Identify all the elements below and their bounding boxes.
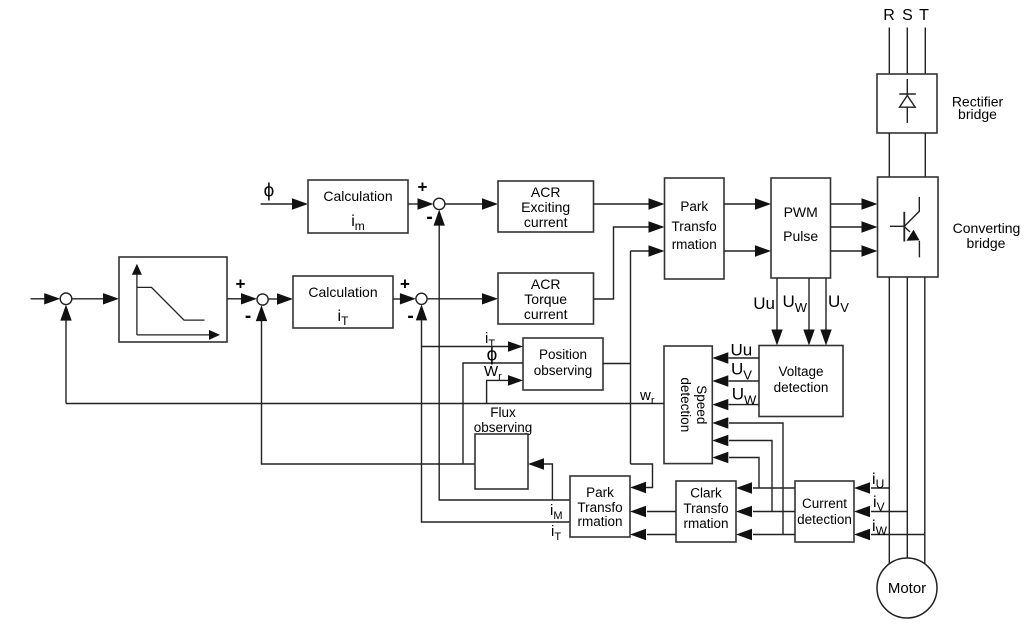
label iT at lower Park — [551, 523, 561, 543]
wire current tap iW to speed detection — [712, 417, 783, 534]
wire current tap iV to speed detection — [712, 435, 772, 512]
svg-text:rmation: rmation — [672, 237, 717, 252]
label iT at position observing — [485, 330, 495, 350]
svg-text:+: + — [400, 275, 410, 294]
wire Park to PWM row2 — [724, 245, 771, 256]
ramp limiter y-axis — [132, 264, 142, 335]
wire S1 to ramp limiter — [72, 293, 119, 304]
summing junction S3 (torque) — [416, 293, 427, 304]
svg-text:Converting: Converting — [953, 220, 1021, 236]
svg-text:-: - — [407, 306, 413, 327]
svg-text:Calculation: Calculation — [308, 284, 377, 300]
wire PWM to converting bridge row3 — [830, 245, 877, 256]
block Park Transformation U1 — [665, 178, 725, 279]
block Park Transformation U2 — [570, 476, 630, 537]
block Calculation iT — [293, 276, 393, 328]
wire iM from lower Park to S4 — [434, 210, 571, 500]
block converting bridge — [878, 177, 939, 277]
svg-text:Transfo: Transfo — [672, 219, 717, 234]
svg-text:Transfo: Transfo — [683, 501, 728, 516]
svg-text:rmation: rmation — [577, 514, 622, 529]
wire wr up into summing junction S1 — [60, 305, 71, 404]
wire S3 to ACR Torque current — [427, 293, 498, 304]
block ACR Torque current — [498, 273, 594, 324]
label iV — [873, 494, 885, 514]
svg-text:rmation: rmation — [683, 516, 728, 531]
svg-text:Speed: Speed — [694, 385, 709, 424]
wire Clark to lower Park row3 — [630, 529, 676, 540]
label Converting bridge — [953, 220, 1021, 251]
wire current detection to Clark row2 — [736, 506, 795, 517]
svg-text:Park: Park — [680, 199, 708, 214]
summing junction S4 (exciting) — [434, 198, 445, 209]
svg-text:bridge: bridge — [967, 235, 1006, 251]
label Uw at voltage detection — [732, 385, 757, 408]
svg-text:Park: Park — [586, 485, 614, 500]
wire ramp limiter to summing junction S2 — [227, 293, 257, 304]
wire Clark to lower Park row2 — [630, 506, 676, 517]
block Voltage detection — [759, 346, 843, 417]
wire rectifier to converting bridge left — [888, 133, 890, 177]
wire PWM to voltage detection line Uv — [820, 278, 831, 346]
wire voltage detection to speed detection Uu — [712, 352, 759, 363]
wire converting bridge to motor phase U — [888, 277, 890, 564]
svg-text:current: current — [524, 306, 568, 322]
wire position observing output — [603, 363, 631, 365]
svg-text:Transfo: Transfo — [577, 500, 622, 515]
wire iU tap into current detection — [854, 482, 889, 493]
wire rectifier to converting bridge right — [924, 133, 926, 177]
label Uu at voltage detection — [731, 341, 753, 360]
wire Park to PWM row1 — [724, 198, 771, 209]
svg-text:Uu: Uu — [753, 294, 775, 313]
wire PWM to voltage detection line Uu — [771, 278, 782, 346]
wire S to rectifier — [906, 28, 908, 75]
wire S2 to Calculation iT — [268, 293, 293, 304]
wire phi to upper Park input 3 — [631, 245, 665, 256]
transistor Q1 in converting bridge — [890, 197, 920, 257]
svg-text:bridge: bridge — [958, 106, 997, 122]
label plus at S4 — [418, 178, 428, 197]
svg-text:Clark: Clark — [690, 486, 722, 501]
block Speed detection — [664, 346, 712, 464]
label Rectifier bridge — [952, 94, 1004, 123]
wire PWM to converting bridge row1 — [830, 198, 877, 209]
wire iM branch up to flux observing — [528, 458, 552, 500]
svg-text:-: - — [426, 207, 432, 228]
summing junction S2 (torque ref) — [257, 294, 268, 305]
label iM — [550, 502, 563, 522]
label minus at S3 — [407, 306, 413, 327]
ramp limiter curve — [137, 287, 204, 320]
wire wr branch to position observing Wr input — [487, 375, 523, 403]
wire S4 to ACR Exciting current — [445, 198, 498, 209]
svg-text:T: T — [919, 7, 929, 24]
wire flux tap to position observing phi input — [463, 363, 523, 464]
block Calculation im — [308, 180, 408, 233]
svg-text:ACR: ACR — [531, 276, 561, 292]
svg-text:PWM: PWM — [784, 204, 818, 220]
svg-text:Position: Position — [539, 347, 587, 362]
wire PWM to converting bridge row2 — [830, 221, 877, 232]
label Wr at position observing — [484, 363, 502, 383]
wire current detection to Clark row3 — [736, 529, 795, 540]
svg-text:ACR: ACR — [531, 184, 561, 200]
block ramp limiter — [119, 257, 227, 342]
wire phi input to Calculation im — [261, 198, 308, 209]
wire voltage detection to speed detection Uw — [712, 399, 759, 410]
block PWM Pulse — [771, 178, 831, 278]
svg-text:+: + — [418, 178, 428, 197]
wire iW tap into current detection — [854, 529, 925, 540]
label iW — [872, 518, 888, 538]
label phi at position observing — [487, 345, 498, 366]
label Flux observing — [474, 405, 533, 435]
wire speed reference input — [31, 293, 61, 304]
svg-text:detection: detection — [797, 512, 852, 527]
label plus at S3 — [400, 275, 410, 294]
svg-text:detection: detection — [774, 380, 829, 395]
wire iT from lower Park to S3 — [416, 304, 570, 522]
svg-text:current: current — [524, 214, 568, 230]
block Current detection — [795, 481, 854, 542]
svg-text:Motor: Motor — [888, 580, 926, 597]
svg-text:S: S — [902, 7, 913, 24]
svg-text:+: + — [236, 275, 246, 294]
wire Calculation im to summing junction S4 — [408, 198, 434, 209]
svg-text:R: R — [883, 7, 895, 24]
svg-text:-: - — [245, 306, 251, 327]
svg-text:Current: Current — [802, 496, 847, 511]
label R phase — [883, 7, 895, 24]
wire flux observing output to summing junction S2 — [256, 305, 475, 464]
ramp limiter x-axis — [137, 330, 220, 340]
wire ACR Torque to Park Transformation (elbow up) — [594, 221, 665, 299]
motor M1 — [877, 558, 937, 618]
diode D1 in rectifier — [899, 79, 916, 123]
wire ACR Exciting to Park Transformation — [594, 198, 665, 209]
label plus at S2 — [236, 275, 246, 294]
label minus at S4 — [426, 207, 432, 228]
node phi reference input label — [264, 181, 275, 202]
wire Calculation iT to summing junction S3 — [393, 293, 416, 304]
label wr — [639, 387, 655, 407]
svg-text:observing: observing — [474, 420, 533, 435]
summing junction S1 (speed) — [60, 293, 72, 305]
label minus at S2 — [245, 306, 251, 327]
wire voltage detection to speed detection Uv — [712, 375, 759, 386]
svg-text:Pulse: Pulse — [783, 228, 818, 244]
wire iV tap into current detection — [854, 506, 908, 517]
label T phase — [919, 7, 929, 24]
block Position observing — [523, 338, 603, 390]
svg-text:detection: detection — [678, 377, 693, 432]
svg-text:Uu: Uu — [731, 341, 753, 360]
block Clark Transformation — [676, 481, 736, 542]
wire wr feedback from speed detection — [66, 403, 664, 405]
label Uw at PWM output — [782, 292, 807, 315]
label Uv at voltage detection — [731, 360, 752, 383]
block rectifier bridge — [877, 74, 937, 133]
svg-text:observing: observing — [534, 363, 593, 378]
svg-text:Flux: Flux — [490, 405, 516, 420]
svg-text:Calculation: Calculation — [323, 188, 392, 204]
label Uu at PWM output — [753, 294, 775, 313]
wire phi jog to lower Park — [630, 464, 653, 493]
svg-text:Voltage: Voltage — [778, 364, 823, 379]
block Flux observing — [475, 434, 528, 489]
wire phi distribution vertical — [630, 251, 632, 464]
wire converting bridge to motor phase V — [906, 277, 908, 559]
label iU — [872, 471, 884, 491]
wire T to rectifier — [924, 28, 926, 75]
svg-text:ϕ: ϕ — [264, 181, 275, 202]
svg-text:Exciting: Exciting — [521, 199, 570, 215]
wire current detection to Clark row1 — [736, 482, 795, 493]
block ACR Exciting current — [498, 181, 594, 232]
label Uv at PWM output — [828, 292, 849, 315]
label S phase — [902, 7, 913, 24]
wire R to rectifier — [888, 28, 890, 75]
wire converting bridge to motor phase W — [924, 277, 926, 564]
svg-text:Torque: Torque — [524, 291, 567, 307]
wire iT branch to position observing — [422, 341, 524, 352]
wire PWM to voltage detection line Uw — [803, 278, 814, 346]
wire current tap iU to speed detection — [712, 452, 759, 488]
